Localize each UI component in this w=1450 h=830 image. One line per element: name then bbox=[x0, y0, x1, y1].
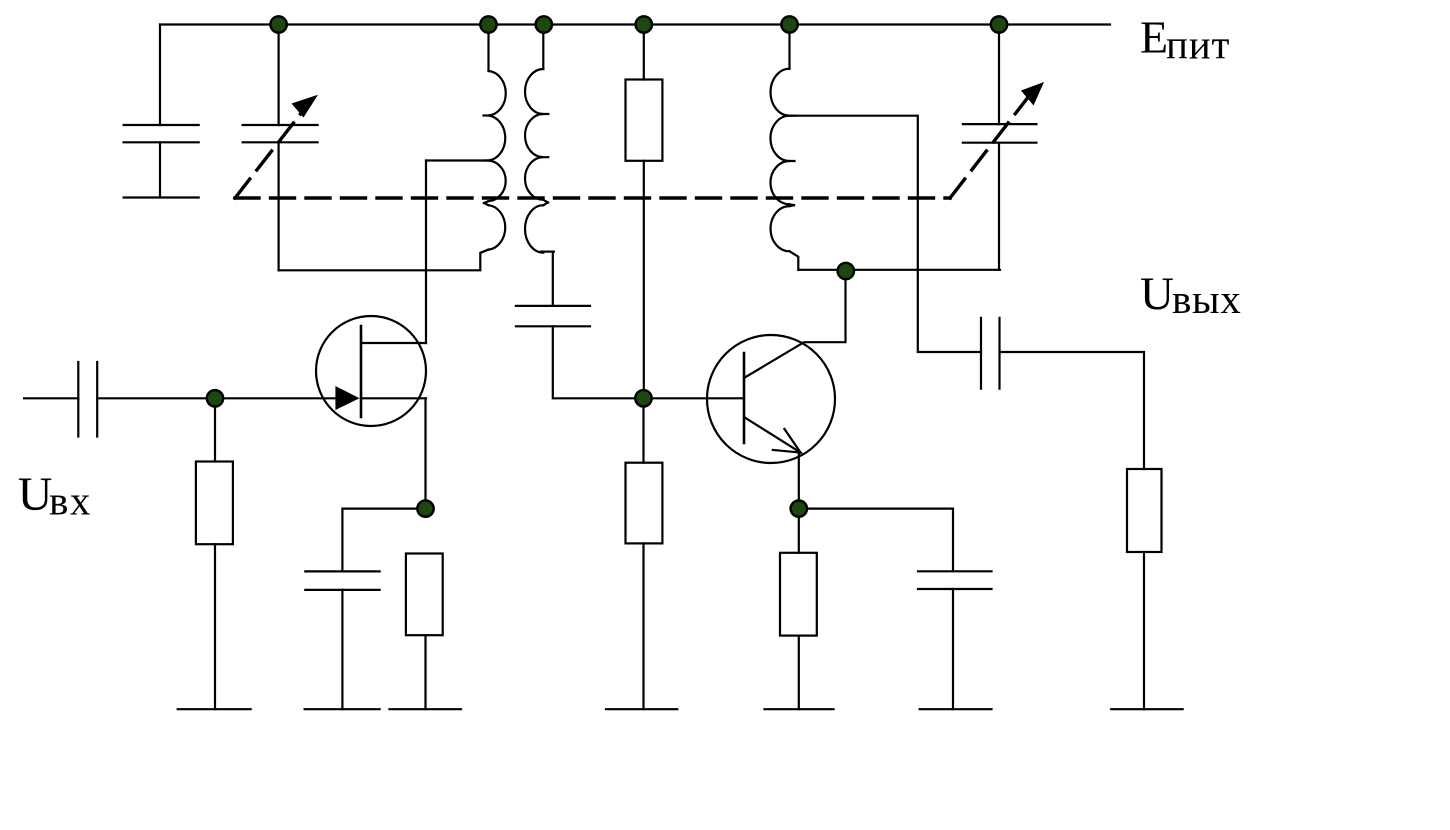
resistor R1 bbox=[196, 462, 233, 545]
variable capacitor C2 bottom lead bbox=[278, 142, 280, 270]
node rail-L2 bbox=[536, 16, 552, 32]
transistor Q2 emitter arrowhead bbox=[773, 429, 801, 453]
svg-text:вх: вх bbox=[49, 478, 92, 524]
ground R2 bbox=[390, 708, 462, 710]
label Uвх bbox=[18, 468, 92, 524]
ground C6 bbox=[305, 708, 380, 710]
wire emitter node to bypass C8 bbox=[799, 509, 953, 572]
resistor R7 bottom lead bbox=[1143, 552, 1145, 709]
inductor L1 primary top lead bbox=[487, 25, 489, 72]
wire C5 to gate bbox=[97, 397, 336, 399]
transistor Q2 emitter diagonal bbox=[745, 417, 801, 452]
capacitor C1 bottom bar terminal bbox=[124, 196, 199, 198]
ground R1 bbox=[178, 708, 251, 710]
node rail-L3 bbox=[781, 16, 797, 32]
resistor R2 source resistor bbox=[406, 554, 443, 636]
node emitter bbox=[791, 500, 807, 516]
capacitor C1 bbox=[124, 125, 199, 142]
capacitor C8 bottom lead bbox=[952, 589, 954, 709]
capacitor C6 bottom lead bbox=[341, 590, 343, 709]
variable capacitor C2 top lead bbox=[278, 25, 280, 126]
wire L3 tap to output bbox=[790, 116, 982, 352]
transistor Q2 BJT circle bbox=[707, 335, 835, 463]
node rail-R3 bbox=[636, 16, 652, 32]
node gate input bbox=[207, 390, 223, 406]
inductor L1 primary winding bbox=[489, 71, 506, 250]
resistor R3 bbox=[626, 80, 663, 161]
transistor Q1 channel bar bbox=[360, 326, 363, 417]
wire C7 to load resistor bbox=[1000, 352, 1145, 469]
wire Q1 drain up to L1 tap bbox=[425, 161, 427, 344]
inductor L3 cusp nubs bbox=[790, 116, 795, 206]
inductor L2 secondary winding bbox=[525, 69, 543, 253]
svg-text:U: U bbox=[18, 468, 53, 521]
capacitor C3 top lead bbox=[552, 252, 554, 306]
resistor R5 emitter resistor bbox=[780, 553, 817, 636]
inductor L3 bottom hook bbox=[790, 251, 799, 269]
transistor Q1 drain lead bbox=[361, 342, 426, 344]
wire node tank1 bottom (C2 to L1) bbox=[279, 250, 489, 271]
resistor R1 top lead bbox=[214, 398, 216, 461]
wire source node to bypass C6 bbox=[342, 509, 425, 572]
ground C8 bbox=[920, 708, 992, 710]
capacitor C7 output coupling bbox=[981, 318, 1000, 389]
inductor L2 bottom nub bbox=[541, 251, 554, 253]
variable capacitor C4 arrowhead bbox=[1021, 82, 1044, 106]
node rail-L1 bbox=[480, 16, 496, 32]
node base bbox=[635, 390, 651, 406]
variable capacitor C4 bottom lead bbox=[998, 143, 1000, 270]
resistor R4 top lead bbox=[642, 398, 644, 462]
wire Q1 source down bbox=[424, 398, 426, 508]
capacitor C1 top lead bbox=[159, 25, 161, 126]
wire L1 tap to JFET drain bbox=[426, 159, 489, 161]
label Епит bbox=[1140, 11, 1230, 67]
resistor R1 bottom lead bbox=[214, 544, 216, 709]
transistor Q1 JFET circle bbox=[316, 316, 426, 426]
resistor R7 load bbox=[1127, 469, 1162, 552]
variable capacitor C4 bbox=[963, 124, 1037, 143]
wire base node to Q2 bbox=[644, 397, 745, 399]
resistor R2 bottom lead bbox=[424, 635, 426, 709]
resistor R4 bbox=[626, 463, 663, 544]
capacitor C3 bbox=[516, 306, 590, 326]
label Uвых bbox=[1140, 268, 1242, 322]
svg-text:Е: Е bbox=[1140, 11, 1168, 62]
capacitor C5 input coupling bbox=[78, 362, 97, 437]
variable capacitor C2 bbox=[243, 125, 318, 142]
capacitor C6 bypass bbox=[305, 571, 379, 590]
inductor L2 cusp nubs bbox=[543, 114, 548, 205]
wire L3 bottom to C4 bbox=[798, 269, 1000, 271]
ground R4 bbox=[606, 708, 677, 710]
resistor R4 bottom lead bbox=[642, 543, 644, 709]
capacitor C8 bypass bbox=[918, 571, 992, 589]
resistor R3 top lead bbox=[643, 25, 645, 80]
node collector tank bbox=[838, 263, 854, 279]
inductor L3 winding bbox=[770, 69, 789, 252]
capacitor C1 bottom lead bbox=[159, 142, 161, 197]
variable capacitor C2 arrow shaft (dashed) bbox=[235, 112, 302, 198]
input wire Uвх bbox=[24, 397, 78, 399]
transistor Q1 gate arrow bbox=[335, 386, 359, 410]
wire Q2 emitter down bbox=[798, 453, 800, 509]
variable capacitor C4 arrow shaft (dashed) bbox=[950, 96, 1029, 198]
variable capacitor C4 top lead bbox=[998, 25, 1000, 125]
resistor R5 top lead bbox=[798, 509, 800, 553]
power rail Епит wire bbox=[160, 23, 1110, 25]
svg-text:U: U bbox=[1140, 268, 1174, 320]
variable capacitor C2 arrowhead bbox=[292, 95, 319, 118]
transistor Q1 source lead bbox=[361, 397, 426, 399]
transistor Q2 collector diagonal bbox=[744, 272, 846, 378]
capacitor C3 bottom lead and wire to base node bbox=[553, 326, 644, 398]
ground R7 bbox=[1111, 708, 1182, 710]
transistor Q2 base bar bbox=[743, 353, 746, 443]
inductor L3 top lead bbox=[788, 25, 790, 69]
resistor R5 bottom lead bbox=[798, 636, 800, 710]
ground R5 bbox=[765, 708, 834, 710]
ganged tuning dashed line bbox=[235, 196, 950, 199]
node rail-C2 bbox=[270, 16, 286, 32]
inductor L1 cusp nubs bbox=[484, 116, 489, 206]
wire R3 to base node bbox=[643, 161, 645, 398]
node rail-C4 bbox=[991, 16, 1007, 32]
svg-text:вых: вых bbox=[1172, 276, 1242, 322]
svg-text:пит: пит bbox=[1166, 22, 1230, 68]
inductor L2 secondary top lead bbox=[542, 25, 544, 70]
node source bbox=[417, 500, 433, 516]
